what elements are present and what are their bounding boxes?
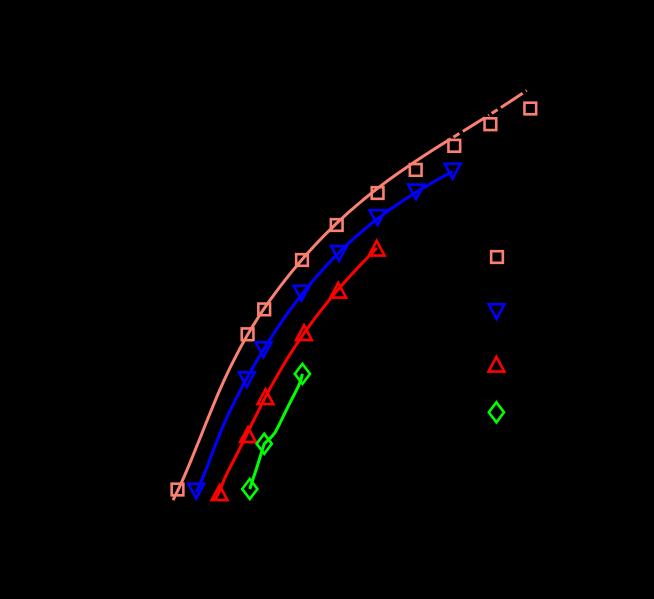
series 1 square marker 1 [172, 484, 184, 496]
series 3 (red) line [215, 248, 377, 500]
series 4 diamond marker 2 [257, 434, 272, 454]
series 2 (blue) line [196, 171, 452, 492]
series 3 up-triangle marker 2 [240, 427, 256, 442]
series 1 square marker 8 [448, 140, 460, 152]
series 1 (salmon) fitted curve, dashed extension [450, 89, 529, 140]
series 4 diamond marker 1 [242, 479, 257, 499]
series 2 down-triangle marker 5 [331, 246, 347, 261]
series 4 (green) line [250, 374, 303, 489]
series 1 square marker 10 [524, 103, 536, 115]
series 1 square marker 5 [331, 219, 343, 231]
series 2 down-triangle marker 3 [256, 342, 272, 357]
series 1 square marker 3 [258, 304, 270, 316]
series 2 down-triangle marker 2 [239, 372, 255, 387]
series 1 square marker 7 [410, 164, 422, 176]
series 1 (salmon) fitted curve, solid part [173, 139, 450, 500]
series 3 up-triangle marker 5 [330, 283, 346, 298]
legend entry 2 marker (blue down-triangle) [489, 304, 505, 319]
series 3 up-triangle marker 6 [369, 241, 385, 256]
series 1 square marker 2 [242, 328, 254, 340]
series 1 square marker 6 [372, 187, 384, 199]
series 2 down-triangle marker 8 [445, 164, 461, 179]
series 3 up-triangle marker 4 [296, 325, 312, 340]
legend entry 3 marker (red up-triangle) [489, 357, 505, 372]
series 1 square marker 4 [296, 254, 308, 266]
series 2 down-triangle marker 4 [294, 286, 310, 301]
series 3 up-triangle marker 1 [212, 485, 228, 500]
legend entry 1 marker (salmon square) [491, 251, 503, 263]
series 4 diamond marker 3 [295, 364, 310, 384]
series 2 down-triangle marker 7 [408, 185, 424, 200]
series 3 up-triangle marker 3 [258, 389, 274, 404]
series 2 down-triangle marker 6 [370, 210, 386, 225]
legend entry 4 marker (green diamond) [489, 402, 504, 422]
series 2 down-triangle marker 1 [188, 484, 204, 499]
series 1 square marker 9 [485, 118, 497, 130]
